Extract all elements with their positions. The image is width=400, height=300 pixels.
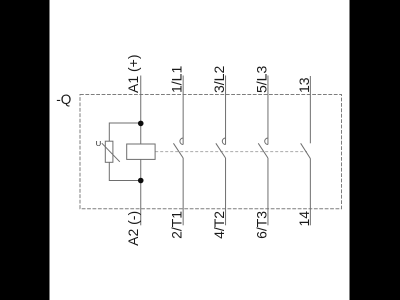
svg-text:3/L2: 3/L2 [211,66,227,93]
svg-text:-Q: -Q [56,92,71,107]
svg-text:5/L3: 5/L3 [253,66,269,93]
svg-text:U: U [96,139,101,148]
svg-text:13: 13 [296,77,312,93]
svg-text:6/T3: 6/T3 [253,211,269,239]
svg-text:A1 (+): A1 (+) [125,54,141,93]
svg-text:14: 14 [296,211,312,227]
svg-text:1/L1: 1/L1 [169,66,185,93]
svg-text:A2 (-): A2 (-) [125,211,141,246]
svg-text:4/T2: 4/T2 [211,211,227,239]
svg-text:2/T1: 2/T1 [169,211,185,239]
